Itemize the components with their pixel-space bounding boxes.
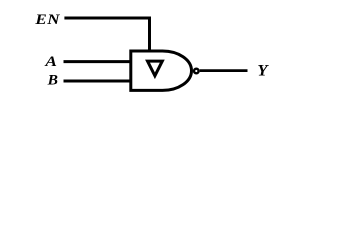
wire EN (enable, right then down into gate top) [64,18,149,51]
NAND gate body U1 [131,51,192,90]
wire A (input) [64,60,132,63]
open-drain triangle symbol [148,61,163,76]
output inversion bubble [194,69,199,74]
wire B (input) [64,80,132,83]
svg-text:A: A [44,54,57,70]
svg-text:Y: Y [257,63,269,79]
svg-text:B: B [47,73,58,89]
wire Y (output) [200,69,248,72]
svg-text:EN: EN [34,12,60,28]
